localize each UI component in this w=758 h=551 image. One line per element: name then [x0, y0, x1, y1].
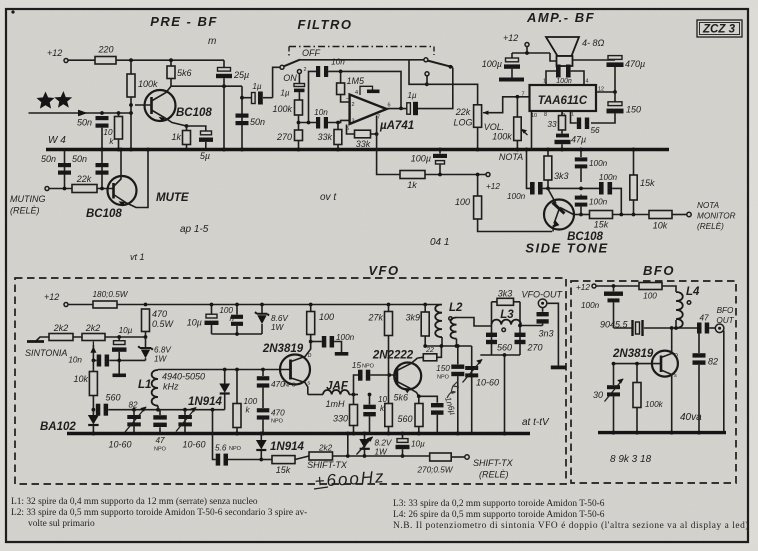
op-amp U1 µA741: [350, 95, 387, 125]
wire wiper row: [93, 359, 145, 361]
resistor 27k: [388, 305, 390, 312]
inductor L3: [492, 302, 521, 355]
capacitor 47 (BFO out): [697, 323, 702, 334]
transistor Q3 BC108 SIDE TONE: [544, 200, 574, 230]
resistor 2k2 (right): [82, 334, 105, 341]
wire 1k row: [377, 150, 400, 175]
transistor Q4 2N3819 FET: [280, 355, 310, 385]
capacitor 470µ: [608, 56, 622, 60]
resistor 100k: [130, 60, 132, 74]
resistor 15k (shift): [261, 459, 272, 461]
capacitor 560 (L3): [486, 333, 497, 337]
capacitor 100n (left): [530, 182, 535, 195]
zener 6.8V 1W: [145, 337, 147, 348]
star marks (input): [37, 92, 55, 109]
bus ground line (top section): [46, 148, 669, 151]
resistor 3k3: [547, 150, 549, 157]
capacitor 47µ: [561, 130, 563, 134]
resistor 100 (BFO): [639, 283, 662, 290]
resistor 22k: [49, 188, 72, 190]
wire feedback top: [328, 71, 401, 108]
capacitor 10µ (wiper): [118, 337, 120, 341]
capacitor 100n (right): [599, 182, 604, 195]
resistor 33k (to bus): [337, 123, 339, 130]
resistor 10k (varicap feed): [92, 360, 94, 371]
wire tank line: [108, 409, 225, 411]
wire collector horizontal: [171, 85, 242, 87]
node +12 (side tone supply): [486, 173, 490, 177]
node SINTONIA (ground return): [36, 337, 50, 342]
resistor 100k (filter input): [295, 100, 303, 115]
wire BFO out ground: [723, 331, 725, 433]
capacitor 15 NPO (coupling): [354, 375, 359, 395]
wire bypass OFF line: [300, 59, 424, 61]
resistor 100 (drain): [310, 305, 312, 312]
resistor 3k9: [424, 305, 426, 313]
inductor L2 secondary: [451, 318, 457, 339]
resistor 560 (emitter): [415, 404, 423, 427]
capacitor 150 NPO: [457, 346, 459, 364]
wiper of 2k2 pot: [92, 345, 94, 360]
BFO dashed box: [571, 281, 736, 483]
capacitor 100n (BFO supply): [613, 286, 615, 291]
resistor 270: [295, 130, 303, 141]
capacitor 470 NPO (lower): [262, 388, 264, 408]
wire shift feed from rail: [347, 434, 349, 457]
resistor 330: [353, 395, 355, 405]
capacitor 1µ (ON input): [298, 74, 300, 84]
resistor 22 (collector): [418, 356, 424, 359]
handwritten check mark: [447, 381, 459, 398]
switch S1a pole: [280, 65, 284, 69]
wire decoupling bottom: [212, 333, 263, 335]
capacitor 150: [614, 92, 616, 102]
diode 1N914 (gate clamp): [224, 370, 226, 384]
inductor L1: [157, 369, 159, 372]
resistor 5k6: [385, 404, 393, 427]
inductor L2: [435, 305, 442, 338]
speaker 4-8 ohm: [546, 37, 579, 56]
resistor 1k: [400, 171, 425, 179]
node BFO OUT terminal: [715, 324, 724, 333]
wire pin12: [596, 91, 615, 93]
capacitor 100n (upper): [580, 150, 582, 158]
capacitor 10n (feedback): [316, 66, 320, 77]
transistor Q6 2N3819 (BFO): [652, 351, 678, 377]
zener 8.6V 1W: [261, 305, 263, 314]
diode BA102 varicap: [92, 408, 96, 412]
ground (100µ): [499, 78, 524, 82]
capacitor 270 (L3): [515, 333, 526, 337]
capacitor 50n (mute right): [101, 150, 103, 189]
diode 1N914 (shift): [259, 432, 263, 436]
resistor 100k (BFO gate): [636, 364, 638, 383]
wire 100k bottom to base node: [130, 97, 132, 150]
capacitor 3n3: [542, 308, 544, 312]
resistor 15k (vertical): [633, 150, 635, 176]
capacitor 1µ (PRE-BF output): [242, 97, 252, 99]
capacitor 50n (mute left): [64, 150, 66, 189]
capacitor 10µ (vfo supply): [211, 305, 213, 315]
transistor Q2 BC108 MUTE: [108, 176, 137, 205]
crystal 9045.5: [614, 327, 632, 329]
resistor 3k3 (vfo out): [492, 301, 498, 303]
junction 100k top: [129, 58, 133, 62]
wire out to ground: [547, 303, 559, 365]
capacitor 100n (collector): [580, 195, 582, 196]
wire wiper to TAA: [489, 97, 530, 113]
ground (drain bypass): [335, 352, 349, 356]
trimmer 82 / 10-60: [133, 410, 135, 434]
resistor 33k (feedback horizontal): [347, 125, 355, 135]
wire +12 to 220: [68, 59, 95, 61]
junction 5k6 top: [169, 58, 173, 62]
capacitor 10n (wiper): [97, 355, 102, 367]
wire up to filter switch: [273, 67, 280, 97]
ground (op-amp pin 4 offset): [360, 86, 373, 95]
potentiometer 22k LOG VOL: [474, 105, 482, 128]
resistor 100 (side tone): [477, 175, 479, 197]
resistor 2k2 (shift): [295, 456, 309, 460]
trimmer 30: [613, 364, 615, 385]
wire L3 to out: [520, 325, 543, 327]
capacitor 100µ (supply): [511, 53, 513, 58]
capacitor 5µ: [187, 126, 206, 131]
capacitor 50n (on collector line): [236, 114, 249, 118]
ground (vfo out): [551, 366, 566, 370]
ZCZ 3 label box: [697, 20, 742, 37]
transistor Q1 BC108: [145, 90, 176, 121]
node SHIFT-TX (RELE) terminal: [465, 455, 469, 459]
trimmer 10-60 (tank): [184, 410, 186, 434]
capacitor 25µ: [223, 60, 225, 67]
capacitor 1µ (output): [387, 108, 407, 110]
capacitor 5.6 NPO: [213, 410, 216, 460]
wire tank bottom: [480, 354, 520, 356]
dash-dot mechanical link (OFF): [289, 46, 434, 48]
capacitor 100n (boot): [546, 71, 556, 85]
wire node A to 10n: [299, 122, 317, 124]
capacitor 100n (drain bypass): [311, 341, 322, 343]
wire VFO supply rail: [117, 304, 440, 306]
inductor JAF 1mH: [308, 394, 323, 396]
capacitor (emitter bypass): [419, 396, 438, 403]
capacitor 50n (input shunt): [96, 116, 109, 120]
ghost bleed-through smudges (decorative): [48, 36, 702, 465]
capacitor 100n (vfo supply): [236, 305, 238, 315]
resistor 1k (emitter): [185, 124, 189, 128]
wire gate line: [158, 369, 291, 371]
resistor 15k (horizontal): [574, 214, 590, 216]
transistor Q5 2N2222: [394, 363, 421, 390]
capacitor 56: [585, 118, 589, 130]
capacitor 100µ (below bus): [439, 150, 441, 154]
resistor 2k2 (left): [49, 334, 73, 341]
wire input line with arrow: [29, 112, 132, 114]
resistor 100k (gate): [236, 370, 238, 404]
trimmer 10-60 (output): [471, 346, 473, 434]
potentiometer 100k (nota level): [514, 117, 522, 141]
node MUTING (RELE) terminal: [45, 187, 49, 191]
IC U2 TAA611C: [530, 85, 597, 111]
capacitor 47 NPO (tank): [159, 410, 161, 434]
resistor 220: [95, 57, 116, 65]
resistor 5k6: [170, 60, 172, 66]
wire pin10 to bus (NOTA): [531, 111, 533, 150]
wire 3k9/L2 bottom row: [425, 345, 472, 347]
wire to volume: [409, 60, 478, 105]
wire 5k6 to collector node: [170, 79, 172, 87]
wire top rail PRE-BF: [116, 59, 224, 61]
resistor 180;0.5W: [93, 301, 117, 308]
switch S1b pole: [424, 58, 428, 62]
capacitor 10k (decoupling): [369, 395, 371, 405]
capacitor 10µ (shift): [402, 434, 404, 439]
node NOTA MONITOR terminal: [687, 212, 691, 216]
resistor 33: [561, 111, 563, 116]
wire 25µ down to bus: [223, 78, 225, 149]
wire nota drop: [527, 150, 531, 189]
capacitor 82 (BFO): [698, 328, 700, 353]
resistor 10k (input): [118, 113, 120, 117]
resistor 10k (to relay): [649, 211, 672, 219]
wire feedback riser: [309, 71, 317, 122]
wire collector corner down: [241, 86, 243, 149]
zener 8.2V 1W: [364, 434, 366, 440]
VFO ground rail: [67, 432, 530, 435]
inductor L4: [676, 292, 683, 328]
BFO ground rail: [598, 431, 726, 434]
VFO dashed box: [15, 278, 566, 484]
ground (wiper bypass): [113, 374, 127, 378]
capacitor 470 NPO (upper): [262, 370, 264, 377]
resistor 470 0.5W: [142, 309, 150, 332]
resistor 1M5: [340, 71, 342, 83]
capacitor 560 (tank): [96, 404, 101, 416]
resistor 270;0.5W: [365, 455, 430, 457]
capacitor 10n (series to pin3): [316, 117, 320, 129]
